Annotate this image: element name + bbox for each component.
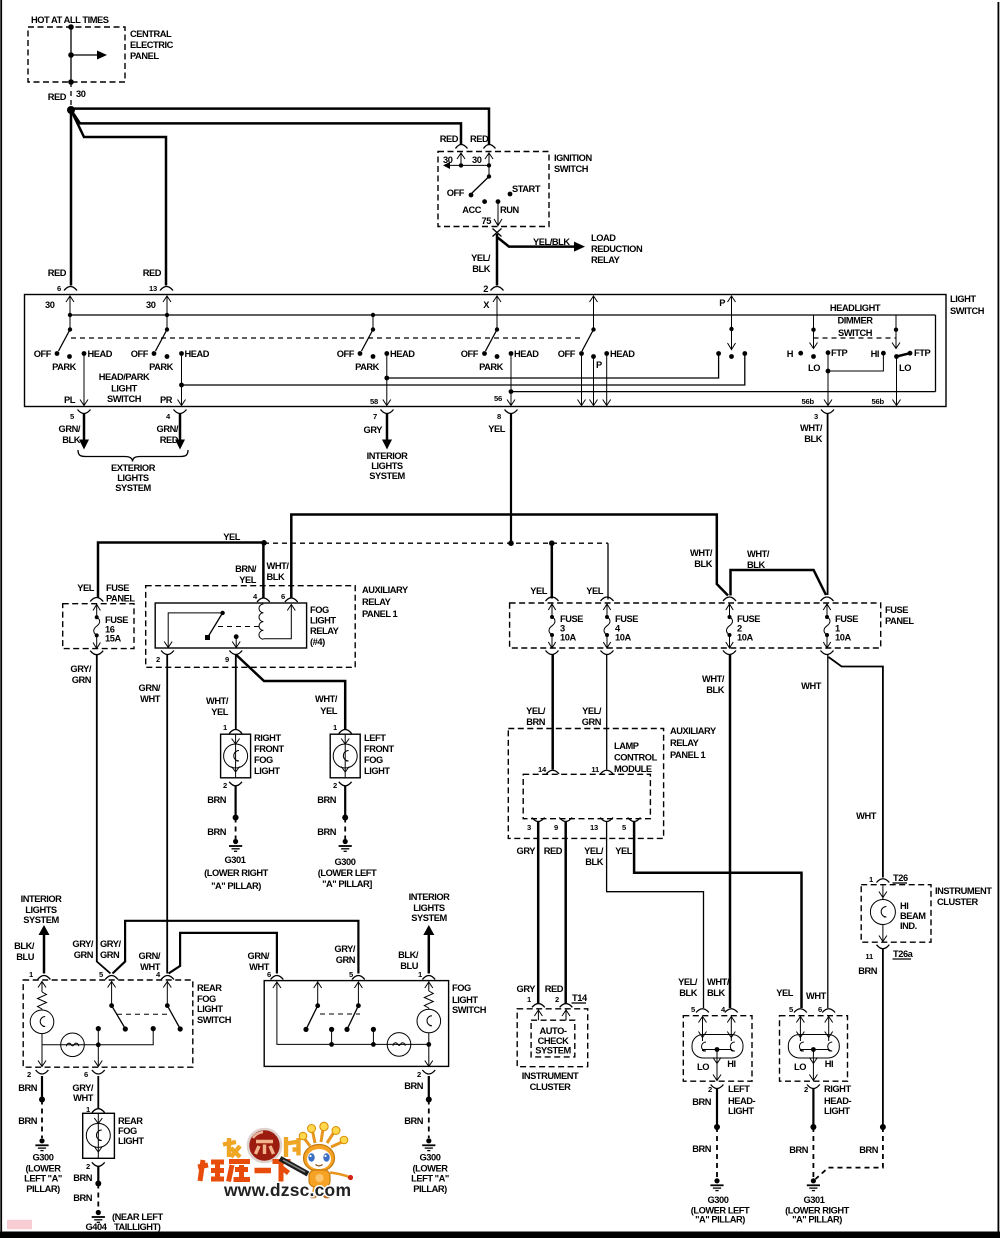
svg-text:WHT/: WHT/ [206, 696, 229, 706]
svg-text:SWITCH: SWITCH [950, 306, 985, 316]
mascot face [307, 1149, 331, 1169]
connector 8 below 56 [505, 410, 518, 414]
svg-text:G300: G300 [708, 1195, 729, 1205]
contact P left [716, 351, 721, 356]
lever P vertical [731, 329, 733, 349]
svg-text:ACC: ACC [462, 205, 482, 215]
mascot legs [314, 1187, 327, 1194]
svg-text:BLU: BLU [400, 961, 418, 971]
svg-text:RELAY: RELAY [591, 255, 621, 265]
arrowhead load reduction [574, 242, 585, 252]
ground G300 left [39, 1138, 44, 1143]
relay lever [209, 613, 223, 636]
node sw2 bus [165, 313, 169, 317]
svg-text:G300: G300 [335, 857, 356, 867]
svg-text:HI: HI [825, 1059, 833, 1069]
svg-text:5: 5 [99, 970, 104, 979]
connector 5 below PL [78, 410, 91, 414]
svg-text:HI: HI [871, 349, 879, 359]
left headlight box [683, 1016, 752, 1081]
fuse 2 symbol [729, 604, 731, 617]
svg-text:BRN: BRN [789, 1145, 809, 1155]
aux relay panel 2 box [508, 729, 663, 839]
rear lever1 pivot [109, 1003, 114, 1008]
svg-text:PANEL: PANEL [106, 594, 135, 604]
wire FTP1-HI link [828, 353, 883, 371]
svg-text:15A: 15A [105, 634, 121, 644]
wire RED module [564, 822, 567, 1003]
svg-text:REAR: REAR [197, 983, 222, 993]
svg-text:5: 5 [622, 823, 627, 832]
svg-text:RED: RED [48, 92, 67, 102]
svg-text:G404: G404 [86, 1222, 108, 1232]
svg-text:BEAM: BEAM [900, 911, 926, 921]
connector right fog 1 [229, 730, 242, 734]
node fog bus3 [426, 1042, 431, 1047]
svg-text:PANEL 1: PANEL 1 [362, 609, 398, 619]
svg-text:LIGHT: LIGHT [118, 1136, 144, 1146]
wire BRN/YEL to relay 4 [262, 543, 265, 598]
node YEL at 56 wire [508, 540, 514, 546]
svg-text:YEL: YEL [586, 586, 604, 596]
svg-text:HEAD: HEAD [185, 349, 210, 359]
instrument cluster box autocheck [517, 1009, 588, 1067]
svg-text:LIGHTS: LIGHTS [371, 461, 403, 471]
line C 56-loop [511, 391, 936, 393]
svg-text:FOG: FOG [310, 605, 329, 615]
svg-text:BLK: BLK [62, 435, 80, 445]
svg-text:BLK: BLK [804, 434, 822, 444]
svg-text:YEL: YEL [211, 707, 229, 717]
connector right headlight 5 [794, 1009, 807, 1013]
lever dimmer2 closed segment [897, 353, 911, 356]
left fog bulb [344, 734, 346, 778]
wire WHT/BLK down from 56b [827, 414, 829, 595]
wire RED to light switch 13 [71, 110, 166, 286]
connector 2 [491, 287, 504, 291]
fog term1 internal [428, 982, 430, 992]
svg-text:LO: LO [899, 363, 911, 373]
rear lever2 feed [166, 981, 168, 1006]
wire WHT/BLK relay6 riser [291, 515, 728, 599]
svg-text:3: 3 [814, 412, 818, 421]
wire YEL module [634, 822, 801, 1008]
svg-text:(LOWER: (LOWER [26, 1164, 62, 1174]
svg-text:BLK: BLK [585, 857, 603, 867]
watermark dzsc logo [198, 1122, 353, 1200]
ground G404 [96, 1210, 101, 1215]
relay pivot to term2 [168, 613, 222, 648]
left front fog light box [330, 734, 360, 778]
svg-text:GRY/: GRY/ [100, 939, 121, 949]
svg-text:BRN: BRN [404, 1081, 424, 1091]
connector left headlight 2 [711, 1085, 724, 1089]
svg-text:LEFT "A": LEFT "A" [24, 1174, 62, 1184]
char yi [255, 1168, 272, 1173]
svg-text:56b: 56b [872, 397, 885, 406]
svg-text:11: 11 [591, 765, 600, 774]
wire branch to load reduction relay [497, 237, 576, 247]
svg-text:GRY/: GRY/ [72, 1083, 93, 1093]
svg-text:SWITCH: SWITCH [107, 394, 142, 404]
svg-text:BLK/: BLK/ [398, 950, 419, 960]
connector hibeam 11 [877, 945, 890, 949]
fog switch resistor [424, 991, 433, 1008]
svg-text:SWITCH: SWITCH [554, 164, 589, 174]
svg-text:CONTROL: CONTROL [614, 753, 658, 763]
svg-text:LIGHTS: LIGHTS [25, 905, 57, 915]
svg-text:RED: RED [545, 984, 564, 994]
rear lever2 tip [178, 1026, 183, 1031]
svg-text:HEAD/PARK: HEAD/PARK [99, 372, 150, 382]
mascot body [309, 1170, 330, 1187]
lever sw1 [59, 330, 71, 352]
svg-text:10A: 10A [737, 633, 753, 643]
line A 58-P [387, 354, 719, 379]
svg-text:PL: PL [64, 395, 76, 405]
svg-text:SWITCH: SWITCH [452, 1005, 487, 1015]
svg-text:OFF: OFF [337, 349, 355, 359]
svg-text:BRN: BRN [692, 1144, 712, 1154]
svg-text:RED: RED [544, 846, 563, 856]
connector fuse2 bottom [723, 651, 736, 655]
svg-text:T26a: T26a [893, 949, 914, 959]
node BRN hibeam [880, 1124, 886, 1130]
svg-text:LIGHT: LIGHT [950, 294, 976, 304]
svg-text:2: 2 [483, 284, 488, 294]
svg-text:CLUSTER: CLUSTER [530, 1082, 571, 1092]
wire YEL/BLK down to light switch 2 [496, 234, 499, 286]
inline connector 75 [493, 229, 502, 237]
crossover wire L1 [113, 921, 359, 974]
rear lever2 [167, 1006, 179, 1027]
wire HEAD sw1 down [83, 354, 85, 406]
svg-text:YEL/: YEL/ [582, 706, 602, 716]
wire GRY module [537, 822, 540, 1003]
svg-text:GRN: GRN [74, 950, 94, 960]
fog light relay box [155, 603, 306, 648]
svg-text:GRY/: GRY/ [334, 944, 355, 954]
wire BRN left headlight [716, 1089, 718, 1127]
connector fuse16 top [90, 598, 103, 602]
wire BRN hibeam [882, 949, 884, 1127]
svg-text:OFF: OFF [131, 349, 149, 359]
svg-text:LEFT: LEFT [364, 733, 386, 743]
svg-text:FUSE: FUSE [615, 614, 638, 624]
wire BRN dashed hibeam [816, 1127, 883, 1179]
fog switch term6 internal [277, 982, 429, 1045]
svg-text:ELECTRIC: ELECTRIC [130, 40, 174, 50]
svg-text:GRN/: GRN/ [139, 683, 161, 693]
svg-text:FOG: FOG [254, 755, 273, 765]
fog contact2 [371, 1027, 376, 1032]
switch4 feed wire X [496, 296, 498, 330]
svg-text:AUXILIARY: AUXILIARY [362, 585, 409, 595]
svg-text:(LOWER LEFT: (LOWER LEFT [318, 868, 377, 878]
mascot crown [304, 1129, 342, 1147]
relay coil [259, 604, 263, 639]
svg-text:LEFT: LEFT [728, 1084, 750, 1094]
svg-text:LIGHT: LIGHT [111, 384, 137, 394]
arrow exterior left [83, 414, 86, 441]
svg-text:HI: HI [900, 901, 908, 911]
svg-text:4: 4 [156, 970, 161, 979]
lever sw5 [582, 330, 594, 352]
crossover wire L2 [169, 933, 277, 974]
svg-text:3: 3 [527, 823, 531, 832]
node BRN rear fog [95, 1181, 101, 1187]
fog light switch box [264, 981, 448, 1067]
fog lever1 pivot [315, 1003, 320, 1008]
lever sw4 [486, 330, 498, 352]
svg-text:BRN: BRN [73, 1173, 93, 1183]
dimmer loop right edge [935, 315, 937, 392]
arrow interior left up [39, 925, 50, 935]
mascot handle [280, 1159, 308, 1175]
svg-text:FUSE: FUSE [737, 614, 760, 624]
svg-text:RELAY: RELAY [670, 738, 700, 748]
connector fuse1 bottom [821, 651, 834, 655]
svg-text:(#4): (#4) [310, 637, 325, 647]
connector light switch 13 [160, 287, 173, 291]
svg-text:BRN: BRN [207, 795, 227, 805]
svg-text:BLK: BLK [679, 988, 697, 998]
char zhao [223, 1138, 240, 1157]
connector ignition 30 right [484, 145, 496, 149]
contact HEAD sw3 [384, 351, 389, 356]
svg-text:2: 2 [708, 1085, 712, 1094]
contact OFF sw2 [152, 351, 157, 356]
contact a [96, 1026, 101, 1031]
wire GRN/WHT from relay2 [166, 655, 168, 974]
fuse 4 symbol [606, 604, 608, 617]
wire fuse1 WHT down [827, 655, 829, 1009]
char xia [273, 1162, 291, 1182]
relay lever tip pad [205, 635, 210, 640]
mascot head [304, 1145, 335, 1172]
contact PARK sw4 [495, 354, 500, 359]
connector rear 2 [36, 1070, 49, 1074]
mascot mouth [316, 1165, 323, 1166]
svg-text:RELAY: RELAY [362, 597, 392, 607]
bottom page border [0, 1232, 1000, 1238]
svg-text:GRY/: GRY/ [70, 664, 91, 674]
svg-text:YEL: YEL [530, 586, 548, 596]
node mid [68, 52, 74, 58]
connector right headlight 6 [822, 1009, 835, 1013]
node top [68, 24, 74, 30]
svg-text:BLK: BLK [267, 572, 285, 582]
svg-text:6: 6 [57, 284, 61, 293]
switch3 feed wire [372, 315, 374, 330]
contact LO dimmer1 [811, 354, 816, 359]
node bottom [68, 79, 74, 85]
svg-text:GRY/: GRY/ [72, 939, 93, 949]
connector left headlight 4 [725, 1009, 738, 1013]
svg-text:GRN/: GRN/ [59, 424, 81, 434]
fog contact1 stub [331, 1029, 333, 1044]
char wei [198, 1160, 224, 1181]
connector rear 6 [92, 1070, 105, 1074]
node sw5 pivot [591, 327, 595, 331]
wire FTP1 down 56b [827, 371, 829, 406]
svg-text:YEL: YEL [77, 583, 95, 593]
arrow exterior right [179, 414, 182, 441]
wire P sw5 stub [593, 357, 595, 406]
svg-text:LOAD: LOAD [591, 233, 616, 243]
wire OFF sw5 stub [581, 354, 583, 406]
contact PARK sw3 [371, 354, 376, 359]
svg-text:LIGHTS: LIGHTS [117, 473, 149, 483]
svg-text:8: 8 [497, 412, 501, 421]
svg-text:5: 5 [70, 412, 75, 421]
light switch internal bus [70, 314, 936, 316]
wire BRN rear2 [41, 1076, 43, 1100]
connector rear switch 5 [105, 976, 118, 980]
svg-text:X: X [483, 300, 490, 310]
connector fuse16 bottom [90, 651, 103, 655]
svg-text:BLK/: BLK/ [14, 941, 35, 951]
contact ACC [482, 199, 487, 204]
svg-text:WHT/: WHT/ [747, 549, 770, 559]
connector rear switch 4 [161, 976, 174, 980]
fog lever1 [307, 1006, 318, 1028]
contact HEAD sw5 [604, 351, 609, 356]
connector fog switch 6 [271, 976, 284, 980]
svg-text:(LOWER: (LOWER [413, 1164, 449, 1174]
node BRN right fog [233, 815, 239, 821]
right headlight box [780, 1016, 848, 1081]
rear switch lamp2 circle [61, 1033, 85, 1057]
svg-text:56: 56 [494, 394, 502, 403]
connector relay 4 [257, 598, 270, 602]
svg-text:BLK: BLK [694, 559, 712, 569]
wire BRN dashed right headlight [812, 1127, 814, 1178]
arrow inside panel [71, 54, 99, 56]
lever dimmer1 [813, 330, 815, 348]
svg-text:SYSTEM: SYSTEM [535, 1046, 571, 1056]
svg-text:10A: 10A [560, 633, 576, 643]
rear dashed link [117, 1013, 170, 1015]
node YEL junction [261, 540, 267, 546]
contact FTP2 [908, 351, 913, 356]
node dimmer2 pivot [894, 328, 898, 332]
svg-text:LIGHT: LIGHT [197, 1004, 223, 1014]
svg-text:RED: RED [470, 134, 489, 144]
svg-text:2: 2 [223, 781, 227, 790]
fog switch lamp2 circle [428, 1008, 430, 1010]
node FTP junction [826, 369, 831, 374]
svg-text:2: 2 [804, 1085, 808, 1094]
dimmer1 feed wire [813, 315, 815, 330]
svg-text:YEL/: YEL/ [678, 977, 698, 987]
svg-text:14: 14 [538, 765, 547, 774]
contact P mid [729, 354, 734, 359]
svg-text:INTERIOR: INTERIOR [21, 894, 63, 904]
node sw3 pivot [371, 327, 375, 331]
switch2 feed wire [166, 296, 168, 330]
svg-text:1: 1 [527, 995, 532, 1004]
connector rear switch 1 [38, 976, 51, 980]
svg-text:REAR: REAR [118, 1116, 143, 1126]
node BRN right headlight [810, 1124, 816, 1130]
node BRN fogswitch2 [426, 1097, 432, 1103]
svg-text:YEL: YEL [488, 424, 506, 434]
svg-text:LAMP: LAMP [614, 741, 639, 751]
hibeam instrument cluster box [861, 885, 931, 943]
svg-text:LO: LO [808, 363, 820, 373]
svg-text:FUSE: FUSE [560, 614, 583, 624]
wire BRN dashed right fog [235, 818, 237, 840]
svg-text:SYSTEM: SYSTEM [115, 483, 151, 493]
svg-text:GRY: GRY [517, 984, 537, 994]
svg-text:YEL/BLK: YEL/BLK [533, 237, 570, 247]
ignition pivot wire [488, 165, 490, 176]
svg-text:G300: G300 [420, 1153, 441, 1163]
node sw3 head junction [384, 376, 389, 381]
relay contact to term9 [235, 637, 237, 648]
mascot eyes [308, 1153, 314, 1161]
svg-text:10A: 10A [835, 633, 851, 643]
svg-text:SWITCH: SWITCH [838, 328, 873, 338]
contact dimmer2 [894, 354, 899, 359]
svg-text:SYSTEM: SYSTEM [23, 915, 59, 925]
svg-text:BLU: BLU [16, 952, 34, 962]
connector rear fog light 2 [92, 1162, 105, 1166]
wire fuse1-fuse2 link [731, 570, 827, 596]
svg-text:OFF: OFF [447, 188, 465, 198]
connector module 5 [628, 818, 641, 822]
contact FTP1 [826, 350, 831, 355]
svg-text:AUTO-: AUTO- [539, 1026, 566, 1036]
char ku [229, 1162, 251, 1182]
svg-text:LIGHT: LIGHT [364, 766, 390, 776]
svg-text:PANEL: PANEL [130, 51, 159, 61]
svg-text:2: 2 [555, 995, 559, 1004]
ignition switch box [438, 152, 549, 227]
fuse 1 symbol [826, 604, 828, 617]
svg-text:30: 30 [146, 300, 156, 310]
contact HEAD sw2 [179, 351, 184, 356]
svg-text:(LOWER RIGHT: (LOWER RIGHT [204, 868, 269, 878]
connector fuse3 bottom [546, 651, 559, 655]
switch5 feed wire [593, 296, 595, 330]
svg-text:FOG: FOG [197, 994, 216, 1004]
lever sw2 [156, 330, 168, 352]
svg-text:LIGHT: LIGHT [254, 766, 280, 776]
svg-text:"A" PILLAR): "A" PILLAR) [695, 1215, 745, 1225]
svg-text:GRY: GRY [364, 425, 384, 435]
junction node [67, 106, 75, 114]
contact HI [881, 351, 886, 356]
wire RUN to 75 [497, 202, 499, 225]
rear fog light box [83, 1113, 115, 1158]
fog lever2 tip [344, 1027, 349, 1032]
svg-text:BLK: BLK [706, 685, 724, 695]
svg-text:PANEL: PANEL [885, 616, 914, 626]
svg-text:OFF: OFF [461, 349, 479, 359]
svg-text:1: 1 [418, 970, 423, 979]
contact PARK sw1 [67, 354, 72, 359]
rear fog light bulb [97, 1113, 99, 1158]
svg-text:13: 13 [590, 823, 598, 832]
svg-text:G300: G300 [33, 1153, 54, 1163]
ground G301 headlight [811, 1178, 816, 1183]
svg-text:HEAD: HEAD [514, 349, 539, 359]
aux relay panel 1 box [146, 586, 356, 668]
ignition internal bus [445, 164, 489, 166]
svg-text:WHT/: WHT/ [267, 561, 290, 571]
